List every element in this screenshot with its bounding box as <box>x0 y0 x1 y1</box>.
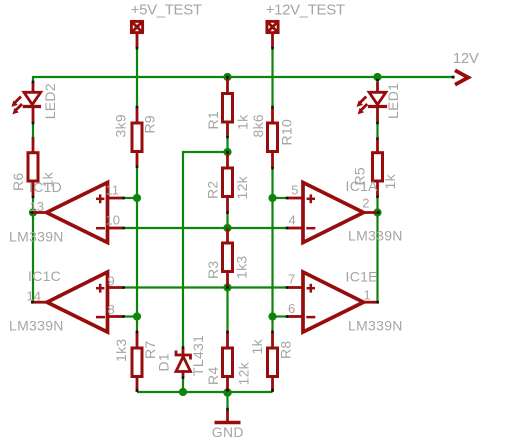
svg-text:12V: 12V <box>453 50 479 67</box>
svg-text:12k: 12k <box>236 361 252 385</box>
svg-text:1k: 1k <box>40 171 56 187</box>
svg-text:R3: R3 <box>205 261 221 280</box>
svg-text:10: 10 <box>106 212 120 227</box>
svg-text:LM339N: LM339N <box>9 229 64 245</box>
svg-text:LED1: LED1 <box>385 83 401 119</box>
svg-text:R2: R2 <box>205 181 221 200</box>
svg-text:7: 7 <box>288 272 295 287</box>
svg-text:4: 4 <box>289 212 296 227</box>
svg-text:1k3: 1k3 <box>113 339 129 362</box>
svg-text:8k6: 8k6 <box>250 114 266 137</box>
svg-text:R9: R9 <box>142 115 158 134</box>
svg-text:IC1C: IC1C <box>28 268 61 284</box>
svg-text:+5V_TEST: +5V_TEST <box>131 1 202 18</box>
svg-text:5: 5 <box>291 182 298 197</box>
svg-text:IC1E: IC1E <box>346 269 378 285</box>
svg-text:9: 9 <box>108 274 115 289</box>
svg-text:2: 2 <box>362 196 369 211</box>
svg-text:1k3: 1k3 <box>234 256 250 279</box>
svg-text:GND: GND <box>212 424 244 440</box>
svg-text:1k: 1k <box>249 338 265 354</box>
svg-text:TL431: TL431 <box>190 335 206 376</box>
svg-text:12k: 12k <box>234 175 250 199</box>
svg-text:R10: R10 <box>279 119 295 146</box>
svg-text:R4: R4 <box>205 367 221 386</box>
svg-text:1k: 1k <box>382 173 398 189</box>
svg-text:3k9: 3k9 <box>113 114 129 137</box>
svg-text:14: 14 <box>27 288 41 303</box>
svg-text:LED2: LED2 <box>42 83 58 119</box>
svg-text:13: 13 <box>30 199 44 214</box>
svg-text:R5: R5 <box>352 167 368 186</box>
svg-text:6: 6 <box>288 301 295 316</box>
svg-text:11: 11 <box>106 182 120 197</box>
svg-text:LM339N: LM339N <box>348 228 403 244</box>
svg-text:1k: 1k <box>235 114 251 130</box>
svg-text:R6: R6 <box>10 173 26 192</box>
svg-text:LM339N: LM339N <box>348 318 403 334</box>
svg-text:1: 1 <box>364 288 371 303</box>
svg-text:D1: D1 <box>156 353 172 372</box>
svg-text:8: 8 <box>108 302 115 317</box>
svg-text:R1: R1 <box>205 111 221 130</box>
svg-text:LM339N: LM339N <box>9 318 64 334</box>
svg-text:+12V_TEST: +12V_TEST <box>266 1 345 18</box>
svg-text:R8: R8 <box>278 341 294 360</box>
